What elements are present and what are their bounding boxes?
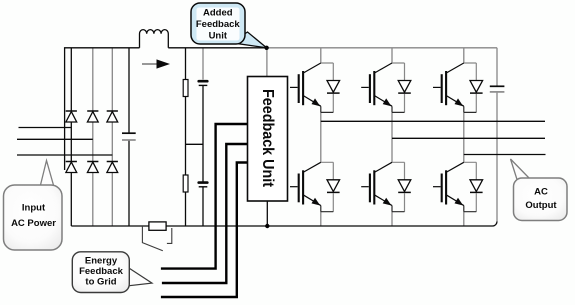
- svg-text:to Grid: to Grid: [85, 277, 116, 288]
- svg-text:AC Power: AC Power: [11, 218, 56, 229]
- svg-text:Output: Output: [525, 200, 557, 211]
- svg-text:Feedback: Feedback: [196, 19, 241, 30]
- svg-text:Feedback Unit: Feedback Unit: [259, 89, 276, 188]
- svg-text:Feedback: Feedback: [79, 266, 124, 277]
- svg-text:Energy: Energy: [85, 256, 118, 267]
- svg-text:AC: AC: [534, 186, 548, 197]
- svg-text:Unit: Unit: [209, 31, 228, 42]
- svg-text:Added: Added: [203, 8, 233, 19]
- svg-text:Input: Input: [22, 203, 46, 214]
